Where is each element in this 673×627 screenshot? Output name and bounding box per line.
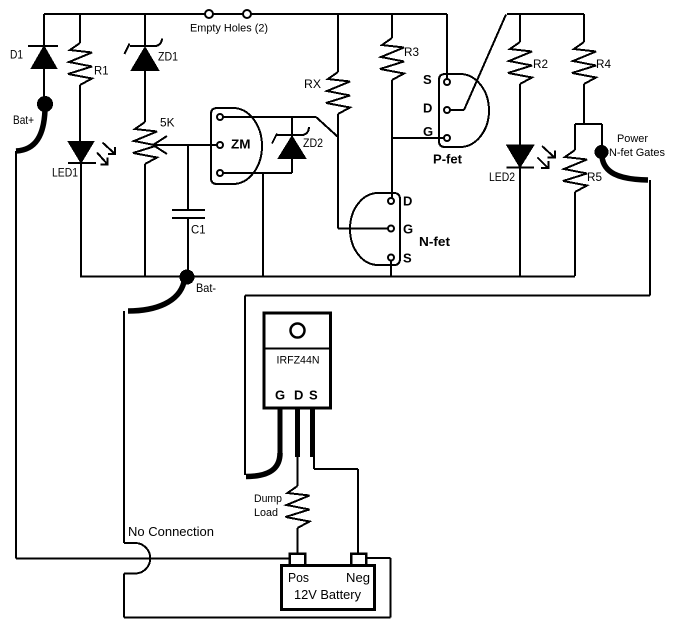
battery Pos terminal: [290, 554, 306, 566]
5K wiper arrow: [153, 136, 167, 154]
wire No Connection vertical upper: [123, 311, 125, 543]
resistor RX: [326, 72, 350, 114]
svg-text:R3: R3: [404, 45, 419, 59]
svg-text:Power: Power: [617, 133, 648, 145]
svg-text:D: D: [294, 388, 303, 403]
svg-text:ZM: ZM: [231, 137, 251, 152]
wire R3 column to P-fet G pin: [392, 137, 444, 139]
resistor R1: [68, 43, 92, 85]
empty hole 2: [243, 10, 251, 18]
svg-text:Neg: Neg: [346, 570, 370, 585]
wire R3 to N-fet D pin: [391, 80, 393, 198]
diode D1: [28, 46, 58, 100]
wire S pin horizontal: [314, 468, 358, 470]
resistor R4: [572, 42, 596, 84]
svg-text:LED1: LED1: [52, 166, 78, 180]
transistor P-fet body: [439, 74, 489, 147]
N-fet pin G: [388, 226, 394, 232]
capacitor C1: [172, 210, 205, 218]
bottom bus wire: [80, 276, 575, 278]
wire to R5 top: [574, 124, 576, 150]
wire R5 to bottom bus: [574, 192, 576, 276]
IRFZ44N mounting hole: [291, 324, 305, 338]
svg-text:IRFZ44N: IRFZ44N: [277, 355, 320, 367]
wire C1 top: [187, 145, 189, 210]
resistor R2: [508, 42, 532, 84]
wire to Power gates node: [601, 124, 603, 148]
svg-text:Bat+: Bat+: [13, 113, 34, 127]
transistor IRFZ44N package body: [264, 313, 331, 408]
wire gates left vertical: [244, 296, 246, 476]
svg-text:LED2: LED2: [489, 170, 515, 184]
wire thick curve to IRFZ44N gate: [246, 453, 280, 477]
svg-text:No Connection: No Connection: [128, 524, 214, 539]
zener ZD1: [125, 39, 163, 123]
wire ZD2 branch to bottom bus: [262, 173, 264, 276]
wire to Neg terminal: [357, 469, 359, 553]
wire P-fet D stub: [450, 109, 464, 111]
IRFZ44N pin G lead: [278, 408, 283, 455]
svg-text:Bat-: Bat-: [196, 281, 216, 295]
svg-text:D1: D1: [10, 48, 23, 62]
ZM pin middle: [217, 142, 223, 148]
battery Neg terminal: [351, 554, 366, 566]
wire N-fet S to bottom bus: [390, 261, 392, 277]
wire LED1 to bottom bus: [80, 163, 82, 276]
svg-text:D: D: [403, 194, 412, 209]
IRFZ44N pin S lead: [310, 408, 315, 457]
wire R4 bottom: [583, 84, 585, 124]
svg-text:Empty Holes (2): Empty Holes (2): [190, 23, 268, 35]
wire No Connection vertical lower: [123, 574, 125, 618]
wire R1 to LED1: [79, 85, 81, 142]
wire R4 column top: [583, 14, 585, 42]
svg-text:5K: 5K: [160, 116, 175, 130]
wire dump load to Pos terminal: [297, 528, 299, 554]
svg-text:S: S: [309, 388, 318, 403]
zener ZD2: [272, 117, 309, 173]
wire 5K wiper to ZM middle input: [153, 144, 217, 146]
op-amp ZM body: [211, 108, 262, 184]
svg-text:Pos: Pos: [288, 570, 309, 585]
wire R3 column top: [391, 14, 393, 38]
wire R2 to LED2: [519, 84, 521, 146]
svg-text:RX: RX: [304, 77, 321, 91]
svg-text:C1: C1: [191, 223, 206, 237]
svg-text:R5: R5: [587, 170, 602, 184]
IRFZ44N pin D lead: [295, 408, 300, 457]
wire S pin down: [313, 457, 315, 469]
wire ZM bottom input: [224, 172, 293, 174]
svg-text:R4: R4: [596, 57, 611, 71]
wire Power gates thick curve: [602, 157, 648, 180]
wire to N-fet G pin: [338, 228, 388, 230]
N-fet pin D: [388, 198, 394, 204]
wire RX to N-fet G row: [337, 114, 339, 229]
P-fet pin S: [444, 79, 450, 85]
svg-text:12V Battery: 12V Battery: [294, 587, 361, 602]
wire top bus left segment: [44, 13, 447, 15]
resistor R5: [563, 150, 587, 192]
LED2 light arrow 2: [538, 158, 549, 169]
svg-text:R1: R1: [94, 64, 109, 78]
svg-text:R2: R2: [533, 57, 548, 71]
ZM pin bottom: [217, 170, 223, 176]
svg-text:ZD2: ZD2: [303, 136, 323, 150]
resistor R3: [380, 38, 404, 80]
wire D1 column top: [43, 14, 45, 47]
svg-text:D: D: [423, 101, 432, 116]
svg-text:ZD1: ZD1: [158, 50, 178, 64]
svg-text:Load: Load: [254, 507, 278, 519]
potentiometer 5K: [133, 122, 157, 164]
wire gates right vertical: [649, 180, 651, 296]
wire P-fet S to top bus: [446, 14, 448, 79]
node Bat+: [37, 96, 53, 112]
N-fet pin S: [388, 255, 394, 261]
wire Bat+ thick curve: [16, 110, 45, 151]
wire D pin to dump load: [297, 457, 299, 486]
svg-text:N-fet: N-fet: [419, 234, 451, 249]
svg-text:Dump: Dump: [254, 493, 282, 505]
ZM pin top: [217, 114, 223, 120]
wire Bat- thick curve: [128, 282, 184, 311]
wire R1 column top: [79, 14, 81, 43]
wire enclosure right vertical: [390, 558, 392, 618]
wire to Neg terminal: [367, 557, 391, 559]
empty hole 1: [205, 10, 213, 18]
LED LED2: [507, 146, 535, 168]
wire RX column top: [337, 14, 339, 72]
svg-text:G: G: [423, 124, 433, 139]
node Power N-fet Gates: [595, 145, 609, 159]
wire R2 column top: [519, 14, 521, 42]
LED1 light arrow 1: [103, 143, 116, 155]
wire top bus right segment: [507, 13, 584, 15]
IRFZ44N tab divider: [264, 347, 331, 349]
wire diagonal P-fet D to top bus: [464, 15, 506, 111]
wire enclosure bottom: [124, 617, 391, 619]
wire 5K to bottom bus: [144, 164, 146, 276]
wire ZD1 column top: [144, 14, 146, 47]
wire hop over Bat+ line: [124, 543, 150, 574]
P-fet pin G: [444, 135, 450, 141]
wire C1 to bottom bus: [187, 218, 189, 276]
svg-text:G: G: [403, 222, 413, 237]
transistor N-fet body: [350, 193, 400, 265]
node Bat-: [180, 270, 195, 285]
wire Bat+ to Pos terminal: [16, 558, 290, 560]
battery 12V body: [282, 566, 375, 610]
wire ZM top input: [224, 116, 317, 118]
svg-text:G: G: [275, 388, 285, 403]
wire LED2 to bottom bus: [519, 168, 521, 276]
svg-text:S: S: [403, 251, 412, 266]
LED2 light arrow 1: [542, 146, 555, 158]
svg-text:S: S: [423, 72, 432, 87]
wire R4 junction horizontal: [575, 123, 602, 125]
svg-text:N-fet Gates: N-fet Gates: [609, 147, 665, 159]
wire Bat+ left vertical: [15, 151, 17, 559]
resistor Dump Load: [286, 486, 310, 528]
svg-text:P-fet: P-fet: [433, 152, 463, 167]
wire diagonal ZM top to RX column: [316, 117, 338, 137]
wire gates bus horizontal: [245, 295, 650, 297]
LED1 light arrow 2: [97, 153, 108, 165]
P-fet pin D: [444, 107, 450, 113]
LED LED1: [68, 142, 96, 163]
